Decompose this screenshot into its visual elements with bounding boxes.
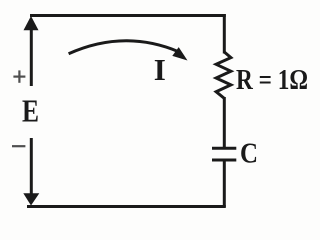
svg-text:E: E (22, 93, 39, 129)
source E down arrow (23, 138, 39, 206)
wire top (30, 14, 226, 17)
source E up arrow (24, 16, 39, 86)
plus sign (13, 70, 25, 82)
svg-text:I: I (154, 52, 166, 87)
capacitor C top plate (212, 147, 236, 150)
wire right lower (223, 160, 226, 207)
minus sign (12, 145, 25, 147)
capacitor C bottom plate (212, 159, 236, 162)
resistor R (216, 52, 231, 98)
current arrowhead (172, 47, 187, 60)
wire bottom (27, 205, 226, 208)
wire right upper (223, 14, 226, 54)
svg-text:R = 1Ω: R = 1Ω (236, 65, 308, 96)
current arc (69, 41, 178, 54)
svg-text:C: C (240, 138, 258, 169)
wire right middle (223, 97, 226, 147)
